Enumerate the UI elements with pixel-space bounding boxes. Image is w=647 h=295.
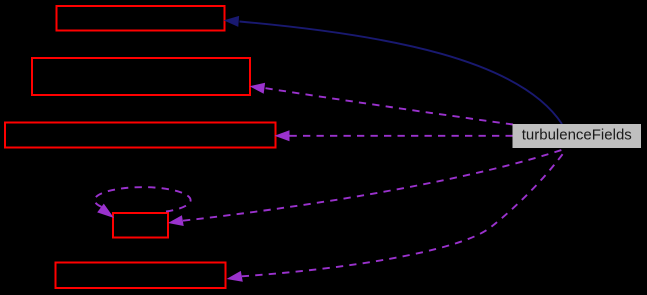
edge E2 wire: turbulenceFields to N2 (dashed purple) [266,88,514,124]
node N2 (second red box, two-line) [32,58,250,95]
edge E4 wire: turbulenceFields to N4 (dashed purple) [183,149,566,221]
edge E6 wire: self-loop on N4 (dashed purple ellipse arc) [95,187,191,211]
edge E4 arrowhead at N4 [168,215,184,226]
edge E5 wire: turbulenceFields to N5 (dashed purple) [242,150,566,277]
node turbulenceFields (gray label box) [513,124,642,148]
node N4 (small red box with self-loop) [113,213,168,238]
node N3 (third red box, widest) [5,123,276,148]
edge E6 arrowhead at N4 top-left [97,204,114,218]
edge E1 arrowhead at N1 [224,16,239,27]
edge E1 wire: turbulenceFields to N1 (solid blue inheritance) [240,22,563,125]
edge E3 arrowhead at N3 [275,130,290,141]
edge E5 arrowhead at N5 [227,271,243,282]
edge E3 wire: turbulenceFields to N3 (dashed purple, horizontal) [290,135,513,137]
svg-text:turbulenceFields: turbulenceFields [522,127,632,144]
node N1 (top red box) [57,6,225,31]
edge E2 arrowhead at N2 [250,83,266,94]
node N5 (bottom red box) [56,263,226,289]
